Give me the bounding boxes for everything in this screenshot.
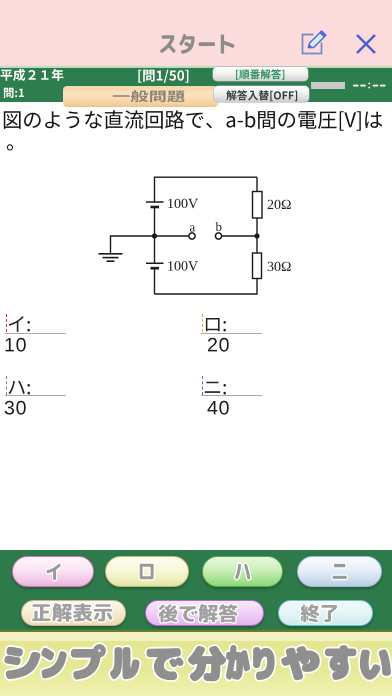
wire left lower: [154, 268, 156, 294]
button ハ: [202, 556, 284, 587]
circuit diagram: [85, 165, 310, 305]
wire right mid: [256, 218, 258, 253]
separator: [0, 66, 392, 68]
option ロ label: [199, 305, 228, 341]
option イ underline: [5, 333, 66, 334]
option イ marker: [6, 314, 7, 333]
junction left: [152, 233, 157, 238]
junction right: [254, 233, 259, 238]
option ニ value: [203, 388, 236, 425]
option ハ label: [3, 368, 32, 404]
question line 1: [0, 100, 389, 138]
label 30ohm: [268, 262, 291, 271]
label 100V bottom: [168, 261, 198, 271]
option ニ underline: [201, 395, 262, 396]
middle wire to ground: [111, 236, 155, 254]
wire right lower + bottom: [155, 279, 258, 295]
green status bar: [0, 68, 392, 102]
banner text: [0, 634, 392, 696]
banner divider: [0, 630, 392, 633]
option ハ value: [0, 388, 33, 425]
counter [問1/50]: [133, 61, 195, 89]
button 正解表示: [21, 600, 126, 626]
battery top: short plate: [151, 206, 160, 209]
option ハ marker: [6, 376, 7, 395]
middle wire to node a: [155, 235, 189, 237]
option ハ underline: [5, 395, 66, 396]
wire left between batteries: [154, 207, 156, 263]
button 後で解答: [145, 600, 265, 626]
title スタート: [154, 22, 242, 64]
option イ value: [0, 325, 33, 362]
解答入替 button: [214, 86, 310, 103]
node a circle: [189, 233, 195, 239]
battery bottom: short plate: [151, 267, 160, 270]
一般問題 text: [108, 76, 191, 111]
label b: [216, 222, 222, 231]
ground symbol: [99, 253, 123, 255]
button 終了: [278, 600, 373, 626]
option ニ label: [199, 368, 228, 404]
button ニ: [297, 556, 382, 587]
battery top: long plate: [146, 201, 164, 203]
順番解答 button: [213, 67, 309, 81]
option ロ value: [203, 325, 236, 362]
battery bottom: long plate: [146, 262, 164, 264]
button ロ: [105, 556, 189, 587]
option ニ marker: [202, 376, 203, 395]
label a: [190, 225, 195, 231]
option イ label: [3, 305, 32, 341]
label 100V top: [168, 199, 198, 209]
一般問題 button: [63, 86, 219, 108]
close icon: [355, 33, 377, 55]
label 20ohm: [268, 200, 291, 209]
wire top: [155, 177, 258, 202]
header bar: [0, 0, 392, 66]
wire b to right branch: [222, 235, 257, 237]
option ロ marker: [202, 314, 203, 333]
wire right upper: [256, 177, 258, 191]
node b circle: [215, 233, 221, 239]
banner background: [0, 641, 392, 696]
bottom panel: [0, 550, 392, 630]
progress bar: [311, 82, 345, 89]
banner pale strip: [0, 632, 392, 641]
option ロ underline: [201, 333, 262, 334]
resistor 30ohm: [253, 253, 262, 279]
button イ: [12, 556, 94, 587]
edit icon: [299, 28, 329, 56]
question line 2: [2, 122, 32, 160]
resistor 20ohm: [253, 192, 263, 219]
問:1: [0, 80, 30, 104]
timer --:--: [353, 82, 387, 89]
year 平成２１年: [0, 61, 70, 88]
